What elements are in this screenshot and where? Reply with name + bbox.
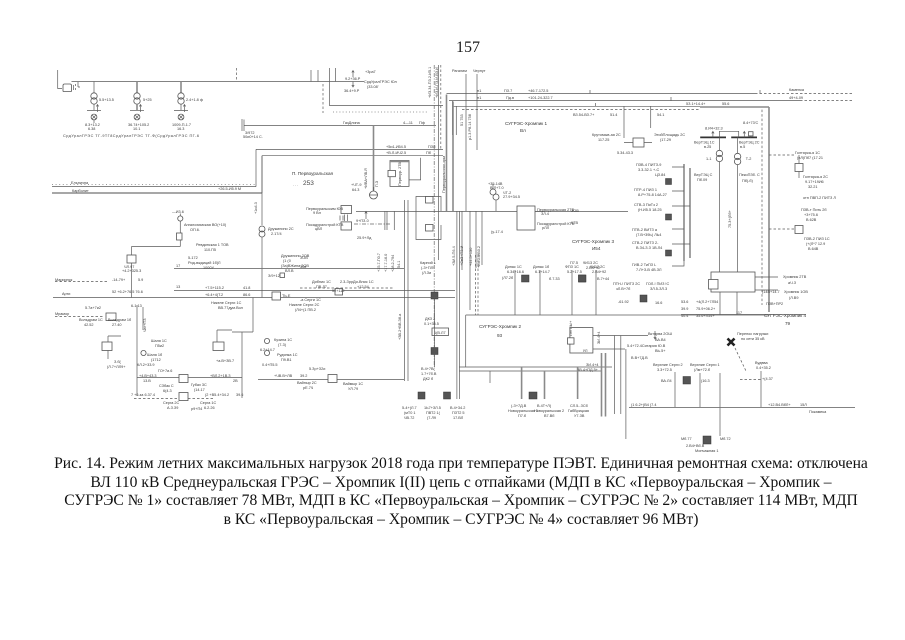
svg-text:86.6: 86.6 (243, 293, 250, 297)
svg-text:зЛ.В+7б: зЛ.В+7б (616, 287, 631, 291)
svg-text:0.1+35.5: 0.1+35.5 (424, 322, 439, 326)
svg-text:+46.7-172.5: +46.7-172.5 (528, 89, 548, 93)
right trunk wire (700, 107, 769, 312)
generator bay G2 (128, 82, 152, 132)
svg-text:в.25: в.25 (704, 145, 711, 149)
svg-text:Чернут: Чернут (473, 69, 486, 73)
bus ticks (236, 68, 238, 82)
svg-text:Шаля 1б: Шаля 1б (147, 353, 163, 357)
svg-text:13.В: 13.В (143, 379, 151, 383)
breaker symbol left end (63, 84, 72, 92)
svg-text:(Л.7+ЛЛ9+: (Л.7+ЛЛ9+ (107, 365, 126, 369)
svg-text:В7.Вб: В7.Вб (544, 414, 555, 418)
svg-text:+17.7-16.0: +17.7-16.0 (384, 254, 388, 272)
svg-text:6.34+16.6: 6.34+16.6 (507, 270, 524, 274)
svg-text:Пб(-б): Пб(-б) (742, 179, 754, 183)
svg-text:Вайныр 2С: Вайныр 2С (297, 381, 317, 385)
filled breaker (666, 250, 672, 256)
svg-text:Динас 1С: Динас 1С (505, 265, 522, 269)
svg-text:ЗВ.4+ПД.5+: ЗВ.4+ПД.5+ (577, 368, 599, 372)
dashed branch (322, 84, 324, 113)
feeders below (522, 367, 578, 399)
svg-text:Чат+ПЗ: Чат+ПЗ (143, 318, 147, 332)
svg-text:ГО+7и.6: ГО+7и.6 (158, 369, 172, 373)
svg-text:Губах 3С: Губах 3С (191, 383, 207, 387)
svg-text:Каменка: Каменка (789, 88, 805, 92)
node tick 242 (241, 119, 243, 131)
dashdot lateral (354, 223, 391, 225)
corner from bus down (330, 82, 444, 106)
svg-text:л1: л1 (477, 89, 481, 93)
Goltyarka branch (769, 154, 794, 156)
svg-text:(Н.И5.5 18.25: (Н.И5.5 18.25 (638, 208, 662, 212)
svg-text:2В: 2В (233, 379, 238, 383)
svg-text:Вольдрам 1б: Вольдрам 1б (108, 318, 132, 322)
verticals right of Leg (614, 336, 626, 440)
line 110kV tie (452, 105, 700, 107)
svg-text:Хромпик 1ОВ: Хромпик 1ОВ (784, 290, 808, 294)
Dinas feeder row (515, 270, 596, 315)
svg-text:+1и4.3: +1и4.3 (254, 202, 258, 214)
transformer T-1 (716, 150, 722, 156)
svg-text:5.5+13.5: 5.5+13.5 (99, 98, 114, 102)
feeder links (672, 167, 690, 266)
wire between boxes (340, 215, 348, 222)
svg-text:(7.Л9: (7.Л9 (427, 416, 436, 420)
Nikele Sergi box (272, 292, 281, 300)
svg-text:1.7+7б.В: 1.7+7б.В (421, 372, 437, 376)
svg-text:р1.3 Рб.14 75б: р1.3 Рб.14 75б (468, 113, 472, 140)
Krutomyv bay (624, 106, 651, 138)
svg-text:13: 13 (176, 285, 180, 289)
svg-text:+ЧВ.В+ЛВ: +ЧВ.В+ЛВ (274, 374, 293, 378)
svg-text:7.Л+З-В 4В.ЗЛ: 7.Л+З-В 4В.ЗЛ (636, 268, 662, 272)
trunk thick feeder Pervouralskaya-khromp (446, 95, 448, 212)
svg-text:Посадуралстрой КТВ: Посадуралстрой КТВ (306, 223, 344, 227)
svg-text:(нЛ)Пб7 (17.21: (нЛ)Пб7 (17.21 (797, 156, 823, 160)
disconnector circle (370, 191, 378, 199)
svg-text:ВВ.77дум.Вол: ВВ.77дум.Вол (218, 306, 243, 310)
svg-text:5+25: 5+25 (143, 98, 152, 102)
svg-text:ПТР-4 ПИЗ 1: ПТР-4 ПИЗ 1 (634, 188, 657, 192)
svg-text:2.17/4: 2.17/4 (271, 232, 282, 236)
verticals below main row (457, 211, 460, 399)
svg-text:ЦЗ.84: ЦЗ.84 (655, 173, 665, 177)
svg-text:+ЗИ.5-П6.4: +ЗИ.5-П6.4 (452, 246, 456, 266)
svg-text:(Лм+72.б: (Лм+72.б (694, 368, 711, 372)
svg-text:39.2: 39.2 (300, 374, 307, 378)
transformer box Pervouralskaya 2TV (390, 161, 409, 187)
svg-text:+(4.37: +(4.37 (762, 377, 773, 381)
svg-text:по сети 35 кВ: по сети 35 кВ (741, 337, 765, 341)
svg-text:Серга 1С: Серга 1С (200, 401, 217, 405)
box right 2TV (517, 206, 535, 230)
svg-text:25.9+Лд: 25.9+Лд (357, 236, 372, 240)
riser wires at left of tie (452, 101, 456, 135)
box SUGRES-Khrompik 2 top edge (466, 314, 769, 316)
Khrompik 110 box (711, 272, 755, 292)
svg-text:Вудвва: Вудвва (755, 361, 768, 365)
svg-text:И54: И54 (592, 246, 601, 251)
svg-text:6(4.3: 6(4.3 (163, 389, 172, 393)
svg-text:УЛ.79: УЛ.79 (348, 387, 358, 391)
svg-text:ВерТЭЦ 1С: ВерТЭЦ 1С (694, 141, 715, 145)
svg-text:Первоур. 2ТВ: Первоур. 2ТВ (398, 161, 402, 186)
svg-text:—И3.6: —И3.6 (172, 210, 184, 214)
svg-text:ВА.Л4: ВА.Л4 (661, 379, 672, 383)
svg-text:ПТВ-2 ВИТЗ а: ПТВ-2 ВИТЗ а (632, 228, 658, 232)
svg-text:в.5: в.5 (740, 145, 745, 149)
page number (0, 39, 905, 57)
svg-text:+4.2+325.3: +4.2+325.3 (122, 269, 141, 273)
svg-text:СУГРЭС-Хромпик 3: СУГРЭС-Хромпик 3 (572, 239, 614, 244)
breaker square on box (388, 170, 395, 176)
svg-text:П. Первоуральская: П. Первоуральская (292, 171, 334, 176)
svg-text:ДКЗ 2: ДКЗ 2 (425, 317, 435, 321)
svg-text:(1712: (1712 (151, 358, 161, 362)
svg-text:7 +6.за 6.37.4: 7 +6.за 6.37.4 (131, 393, 155, 397)
svg-text:(1 6.2+(В4 (7.4: (1 6.2+(В4 (7.4 (631, 403, 656, 407)
svg-text:Мб.77: Мб.77 (681, 437, 692, 441)
transformer Druzhinino (261, 156, 263, 225)
svg-text:+101.24-322.7: +101.24-322.7 (528, 96, 553, 100)
svg-text:54.1: 54.1 (657, 113, 664, 117)
svg-text:(+(Л*7 12.9: (+(Л*7 12.9 (806, 242, 825, 246)
svg-text:93: 93 (497, 333, 503, 338)
VerTETs bus 2 (731, 136, 757, 138)
gray feeder pair down (602, 353, 606, 417)
figure caption (31, 455, 891, 530)
Dibnis bay (300, 287, 394, 289)
svg-text:В.4Т+Л(: В.4Т+Л( (537, 404, 552, 408)
svg-text:СУГРЭС-Хромпик 2: СУГРЭС-Хромпик 2 (479, 324, 521, 329)
step wire right of box (409, 158, 421, 180)
svg-text:ВЛ.В: ВЛ.В (285, 269, 294, 273)
svg-text:ПЗВ-4 ПИТЗ-9: ПЗВ-4 ПИТЗ-9 (636, 163, 661, 167)
box left edge (465, 315, 467, 367)
trunk dashdot line (433, 65, 435, 367)
hatched breaker (431, 348, 438, 355)
svg-text:+3+75.6: +3+75.6 (804, 213, 818, 217)
svg-text:Пб: Пб (426, 151, 432, 155)
svg-text:Первоуральским ЮВ: Первоуральским ЮВ (306, 207, 343, 211)
svg-text:(-З+7Д.В: (-З+7Д.В (511, 404, 527, 408)
svg-text:ПЗ.7: ПЗ.7 (504, 89, 512, 93)
svg-text:8-Р+75-8 14А.27: 8-Р+75-8 14А.27 (638, 193, 667, 197)
svg-text:9И12 2С: 9И12 2С (590, 265, 605, 269)
svg-text:(33.08': (33.08' (367, 85, 379, 89)
svg-text:5З.1+14.4+: 5З.1+14.4+ (686, 102, 706, 106)
svg-text:Мб.72: Мб.72 (720, 437, 731, 441)
Vaynyr line (258, 379, 404, 381)
disconnector circle (178, 216, 183, 221)
Shalya group (136, 305, 138, 396)
svg-text:5.7а+7и2: 5.7а+7и2 (85, 306, 101, 310)
svg-text:(16.3: (16.3 (701, 379, 710, 383)
svg-text:ПВТ2 1(: ПВТ2 1( (426, 411, 441, 415)
svg-text:СУГРЭС-Хромпик 1: СУГРЭС-Хромпик 1 (505, 121, 547, 126)
svg-text:Вольдрам 1С: Вольдрам 1С (79, 318, 103, 322)
svg-text:110.П5: 110.П5 (204, 248, 216, 252)
line Pokameka (629, 407, 855, 409)
svg-text:5.4+72.4Ситария Ю.В: 5.4+72.4Ситария Ю.В (627, 344, 666, 348)
svg-text:(-3+ПЛ!: (-3+ПЛ! (421, 266, 434, 270)
svg-text:1-1: 1-1 (706, 157, 712, 161)
svg-text:р9+П4: р9+П4 (191, 407, 202, 411)
svg-text:Дибнис 1С: Дибнис 1С (312, 280, 331, 284)
box Pervouralskim YuV (341, 206, 352, 214)
svg-text:Вктярва 2ОШ: Вктярва 2ОШ (648, 332, 672, 336)
svg-text:64.3: 64.3 (352, 188, 359, 192)
wires right of box (755, 277, 778, 290)
svg-text:В.64В: В.64В (808, 247, 819, 251)
feeder stubs below row (385, 211, 394, 230)
trunk gray feeder 2 (452, 102, 454, 212)
line +V.L-ICh2.5 (262, 155, 443, 157)
breaker loop below (416, 211, 441, 239)
riser to P.Pervouralskaya (255, 149, 257, 186)
svg-text:Перенос нагрузки: Перенос нагрузки (737, 332, 768, 336)
svg-text:(Л.В9: (Л.В9 (789, 296, 798, 300)
line feeder B (53, 297, 455, 299)
svg-text:СЗбак С: СЗбак С (159, 384, 174, 388)
svg-text:Никеле Серги 2С: Никеле Серги 2С (289, 303, 320, 307)
right bracket bay (217, 330, 242, 398)
svg-text:П5и2: П5и2 (155, 344, 164, 348)
svg-text:(1 (0: (1 (0 (283, 259, 291, 263)
svg-text:5.9: 5.9 (138, 278, 143, 282)
svg-text:Серга 2С: Серга 2С (163, 401, 180, 405)
svg-text:А.З.З9: А.З.З9 (167, 406, 178, 410)
svg-text:+26.5-И5.9 М: +26.5-И5.9 М (218, 187, 241, 191)
svg-text:52+112: 52+112 (332, 289, 345, 293)
svg-text:5-4+(Л.7: 5-4+(Л.7 (402, 406, 417, 410)
svg-text:9.17+19И6: 9.17+19И6 (805, 180, 824, 184)
svg-text:Верхние Серги 1: Верхние Серги 1 (690, 363, 720, 367)
Mariinsk dashed stub (55, 281, 108, 283)
bottom line of box area (681, 314, 806, 316)
svg-text:Динас 1б: Динас 1б (533, 265, 550, 269)
Leg box (570, 328, 593, 353)
svg-text:ЗОВ: ЗОВ (300, 256, 308, 260)
svg-text:39.9: 39.9 (681, 307, 688, 311)
svg-text:17.ВЛ: 17.ВЛ (453, 416, 464, 420)
svg-text:Ревдинская 1 ТОВ: Ревдинская 1 ТОВ (196, 243, 229, 247)
svg-text:51.4: 51.4 (610, 113, 617, 117)
tap arrow SredUralGRES Yul (344, 70, 397, 93)
svg-text:ЗЛ.5-ЗЛ.3: ЗЛ.5-ЗЛ.3 (650, 287, 667, 291)
svg-text:Крутомыв-ая 2С: Крутомыв-ая 2С (592, 133, 621, 137)
svg-text:(7-3): (7-3) (278, 343, 287, 347)
bowtie marker (728, 339, 735, 346)
PTV feeder bus pair (684, 164, 690, 261)
svg-text:Кузина 1С: Кузина 1С (274, 338, 292, 342)
line to Druzhinino lower (174, 268, 404, 270)
svg-text:1000У: 1000У (203, 266, 214, 270)
filled breaker (666, 179, 672, 185)
svg-text:л1: л1 (477, 96, 481, 100)
breaker loop above (416, 197, 441, 212)
svg-text:Мрамор: Мрамор (55, 312, 69, 316)
svg-text:ГабВрицкая: ГабВрицкая (568, 409, 589, 413)
svg-text:27.9+34.5: 27.9+34.5 (503, 195, 520, 199)
svg-text:ЗЛ.4: ЗЛ.4 (541, 212, 549, 216)
Monchazhnaya bay (719, 408, 721, 437)
svg-text:53.6: 53.6 (681, 300, 688, 304)
svg-text:ЗИ.4+4: ЗИ.4+4 (597, 331, 601, 344)
svg-text:З.б(: З.б( (114, 360, 122, 364)
wire Sitariya 2 (593, 348, 625, 350)
svg-text:ЗИ.4+4: ЗИ.4+4 (586, 363, 599, 367)
tick marks near breaker (74, 82, 81, 90)
svg-text:17: 17 (176, 264, 180, 268)
svg-text:ГазДлина: ГазДлина (343, 121, 361, 125)
svg-text:ПЗЛ: ПЗЛ (428, 145, 436, 149)
svg-text:+СвЗ+ПЗ.И: +СвЗ+ПЗ.И (460, 245, 464, 266)
svg-text:2.В4+Вб.В: 2.В4+Вб.В (686, 444, 705, 448)
svg-text:ГИВ-2 ТиПЗ L: ГИВ-2 ТиПЗ L (632, 263, 656, 267)
wire Sitariya 1 (593, 335, 648, 337)
svg-text:75.9+06.2+: 75.9+06.2+ (696, 307, 716, 311)
hatched breaker (431, 292, 438, 299)
dashed area border top (462, 109, 700, 111)
wire Ragalim (465, 74, 467, 211)
svg-text:Дружинино 2С: Дружинино 2С (268, 227, 294, 231)
feeder line (132, 246, 181, 248)
box feeder left (127, 255, 136, 263)
svg-text:6.2+14.7: 6.2+14.7 (260, 348, 275, 352)
svg-text:цВЛ: цВЛ (315, 227, 323, 231)
wire left stub (58, 70, 62, 89)
svg-text:16.3: 16.3 (177, 127, 184, 131)
svg-text:Лег ПЫ+: Лег ПЫ+ (569, 320, 573, 336)
svg-text:54.1: 54.1 (397, 261, 401, 268)
svg-text:Пб.09: Пб.09 (697, 178, 707, 182)
svg-text:ГОЛ-! ПИЗ !С: ГОЛ-! ПИЗ !С (646, 282, 669, 286)
svg-text:+15.7-П0.7: +15.7-П0.7 (377, 253, 381, 272)
svg-text:6.2.26: 6.2.26 (204, 406, 215, 410)
svg-text:+И6.2-ИВ0.2: +И6.2-ИВ0.2 (477, 246, 481, 268)
svg-text:55.6: 55.6 (722, 102, 729, 106)
svg-text:ЭтойПлощадь 2С: ЭтойПлощадь 2С (654, 133, 685, 137)
arrow 9+P3-0 (365, 211, 367, 219)
svg-text:СрдУралГРЭС Юл: СрдУралГРЭС Юл (364, 80, 397, 84)
svg-text:42.52: 42.52 (84, 323, 94, 327)
svg-text:(17-29: (17-29 (660, 138, 671, 142)
svg-text:В.62В: В.62В (806, 218, 817, 222)
svg-text:5.2+17.5: 5.2+17.5 (567, 270, 582, 274)
wire Chernut (476, 74, 478, 150)
svg-text:(7.В+39Ь) ЛЬ4: (7.В+39Ь) ЛЬ4 (636, 233, 661, 237)
svg-text:В.В+7Д.В: В.В+7Д.В (631, 356, 648, 360)
svg-text:9+ПЗ-0: 9+ПЗ-0 (356, 219, 369, 223)
main 110kV row line (356, 210, 628, 212)
box Posaduralstroy KTV (341, 222, 352, 230)
bottom double line (459, 366, 612, 368)
generator bay G3 (172, 82, 203, 132)
svg-text:СрдУралГРЭС ТГ-9ТГ8СрдУралГРЭС: СрдУралГРЭС ТГ-9ТГ8СрдУралГРЭС ТГ-Ф(СрдУ… (63, 134, 199, 138)
svg-text:ЧВ.72: ЧВ.72 (404, 416, 414, 420)
svg-text:СЛ.5-.ЗСб: СЛ.5-.ЗСб (570, 404, 589, 408)
svg-text:27.40: 27.40 (112, 323, 122, 327)
svg-text:3.3+72.5: 3.3+72.5 (657, 368, 672, 372)
svg-text:рЛЛ: рЛЛ (542, 226, 550, 230)
Kuzina bay (264, 338, 269, 343)
hatched breakers bottom (418, 392, 425, 399)
svg-text:УЛ: УЛ (583, 349, 588, 353)
svg-text:рЕ.7Ч: рЕ.7Ч (303, 386, 314, 390)
svg-text:ВерТЭЦ 2С: ВерТЭЦ 2С (739, 141, 760, 145)
filled breaker (666, 214, 672, 220)
svg-text:16.6: 16.6 (655, 301, 662, 305)
svg-text:+ИЗ.34-ПЗ.2-И5.1: +ИЗ.34-ПЗ.2-И5.1 (428, 67, 432, 98)
svg-text:Арти: Арти (62, 292, 70, 296)
svg-text:+28.2-794: +28.2-794 (391, 255, 395, 272)
VerTETs bus 1 (700, 136, 726, 138)
svg-text:В.7+44: В.7+44 (597, 277, 609, 281)
svg-text:(Л7.2б: (Л7.2б (502, 276, 514, 280)
svg-text:4—11: 4—11 (403, 121, 413, 125)
svg-text:3.3-32.1 +-С: 3.3-32.1 +-С (638, 168, 659, 172)
svg-text:8.И4+32.3: 8.И4+32.3 (705, 127, 723, 131)
svg-text:Карболит: Карболит (72, 189, 89, 193)
svg-text:Хромпик 2ТВ: Хромпик 2ТВ (783, 275, 807, 279)
svg-text:В.Л+7.0: В.Л+7.0 (490, 186, 504, 190)
svg-text:6.1+14.7: 6.1+14.7 (535, 270, 550, 274)
svg-text:В.4+7В(: В.4+7В( (421, 367, 436, 371)
svg-text:(мТ0 1: (мТ0 1 (404, 411, 415, 415)
svg-text:79: 79 (785, 321, 791, 326)
line Smolina (52, 186, 256, 188)
svg-text:41.8: 41.8 (243, 286, 250, 290)
svg-text:У7.ЗВ: У7.ЗВ (574, 414, 585, 418)
PZV-t bay (769, 228, 794, 230)
junction ticks on lines (590, 90, 760, 106)
svg-text:Т-2: Т-2 (746, 157, 752, 161)
svg-text:(14В+14.7: (14В+14.7 (762, 290, 780, 294)
svg-text:Никеле Серги 1С: Никеле Серги 1С (211, 301, 242, 305)
svg-text:ПТН-! ПИТЗ 2С: ПТН-! ПИТЗ 2С (613, 282, 640, 286)
svg-text:ПЗВ+ПР2: ПЗВ+ПР2 (766, 302, 783, 306)
svg-text:Вл: Вл (520, 128, 526, 133)
svg-text:ФПЗ 1С: ФПЗ 1С (565, 265, 579, 269)
svg-text:ВА.В4: ВА.В4 (655, 338, 666, 342)
svg-text:Первоуральская-хрм: Первоуральская-хрм (442, 156, 446, 193)
dotted feeder (333, 111, 428, 113)
line Kamenka circuit 2 (449, 100, 800, 102)
svg-text:1(В.Л7: 1(В.Л7 (434, 331, 446, 335)
svg-text:П9.В1: П9.В1 (281, 358, 292, 362)
svg-text:б.7.33: б.7.33 (549, 277, 560, 281)
svg-text:1Ь7+ЗЛ.5: 1Ь7+ЗЛ.5 (424, 406, 441, 410)
GazDlina line (244, 125, 436, 127)
svg-text:СТВ-2 ПИТЗ 2-: СТВ-2 ПИТЗ 2- (632, 241, 659, 245)
svg-text:+44.5+1З0: +44.5+1З0 (469, 248, 473, 266)
svg-text:З/9+12: З/9+12 (268, 274, 280, 278)
right dashed trunk (761, 110, 763, 305)
svg-text:+ИЗ.И-ПЗ.И-ВЗ.И: +ИЗ.И-ПЗ.И-ВЗ.И (435, 67, 439, 98)
svg-text:ПЗВ-т Пить 2б: ПЗВ-т Пить 2б (801, 208, 827, 212)
svg-text:+12.В4.ВбЛ+: +12.В4.ВбЛ+ (768, 403, 791, 407)
svg-text:0.4+35.2: 0.4+35.2 (756, 366, 771, 370)
svg-text:+4(Л.2+7Л54: +4(Л.2+7Л54 (696, 300, 718, 304)
svg-text:+3ра7: +3ра7 (365, 70, 376, 74)
svg-text:ПЗТ2 5: ПЗТ2 5 (452, 411, 465, 415)
svg-text:(Л4+(1 ПВ.2: (Л4+(1 ПВ.2 (295, 308, 316, 312)
svg-text:253: 253 (303, 180, 314, 187)
svg-text:+а.В+ЗВ.7: +а.В+ЗВ.7 (216, 359, 234, 363)
svg-text:5.Зр+З2и: 5.Зр+З2и (309, 367, 325, 371)
